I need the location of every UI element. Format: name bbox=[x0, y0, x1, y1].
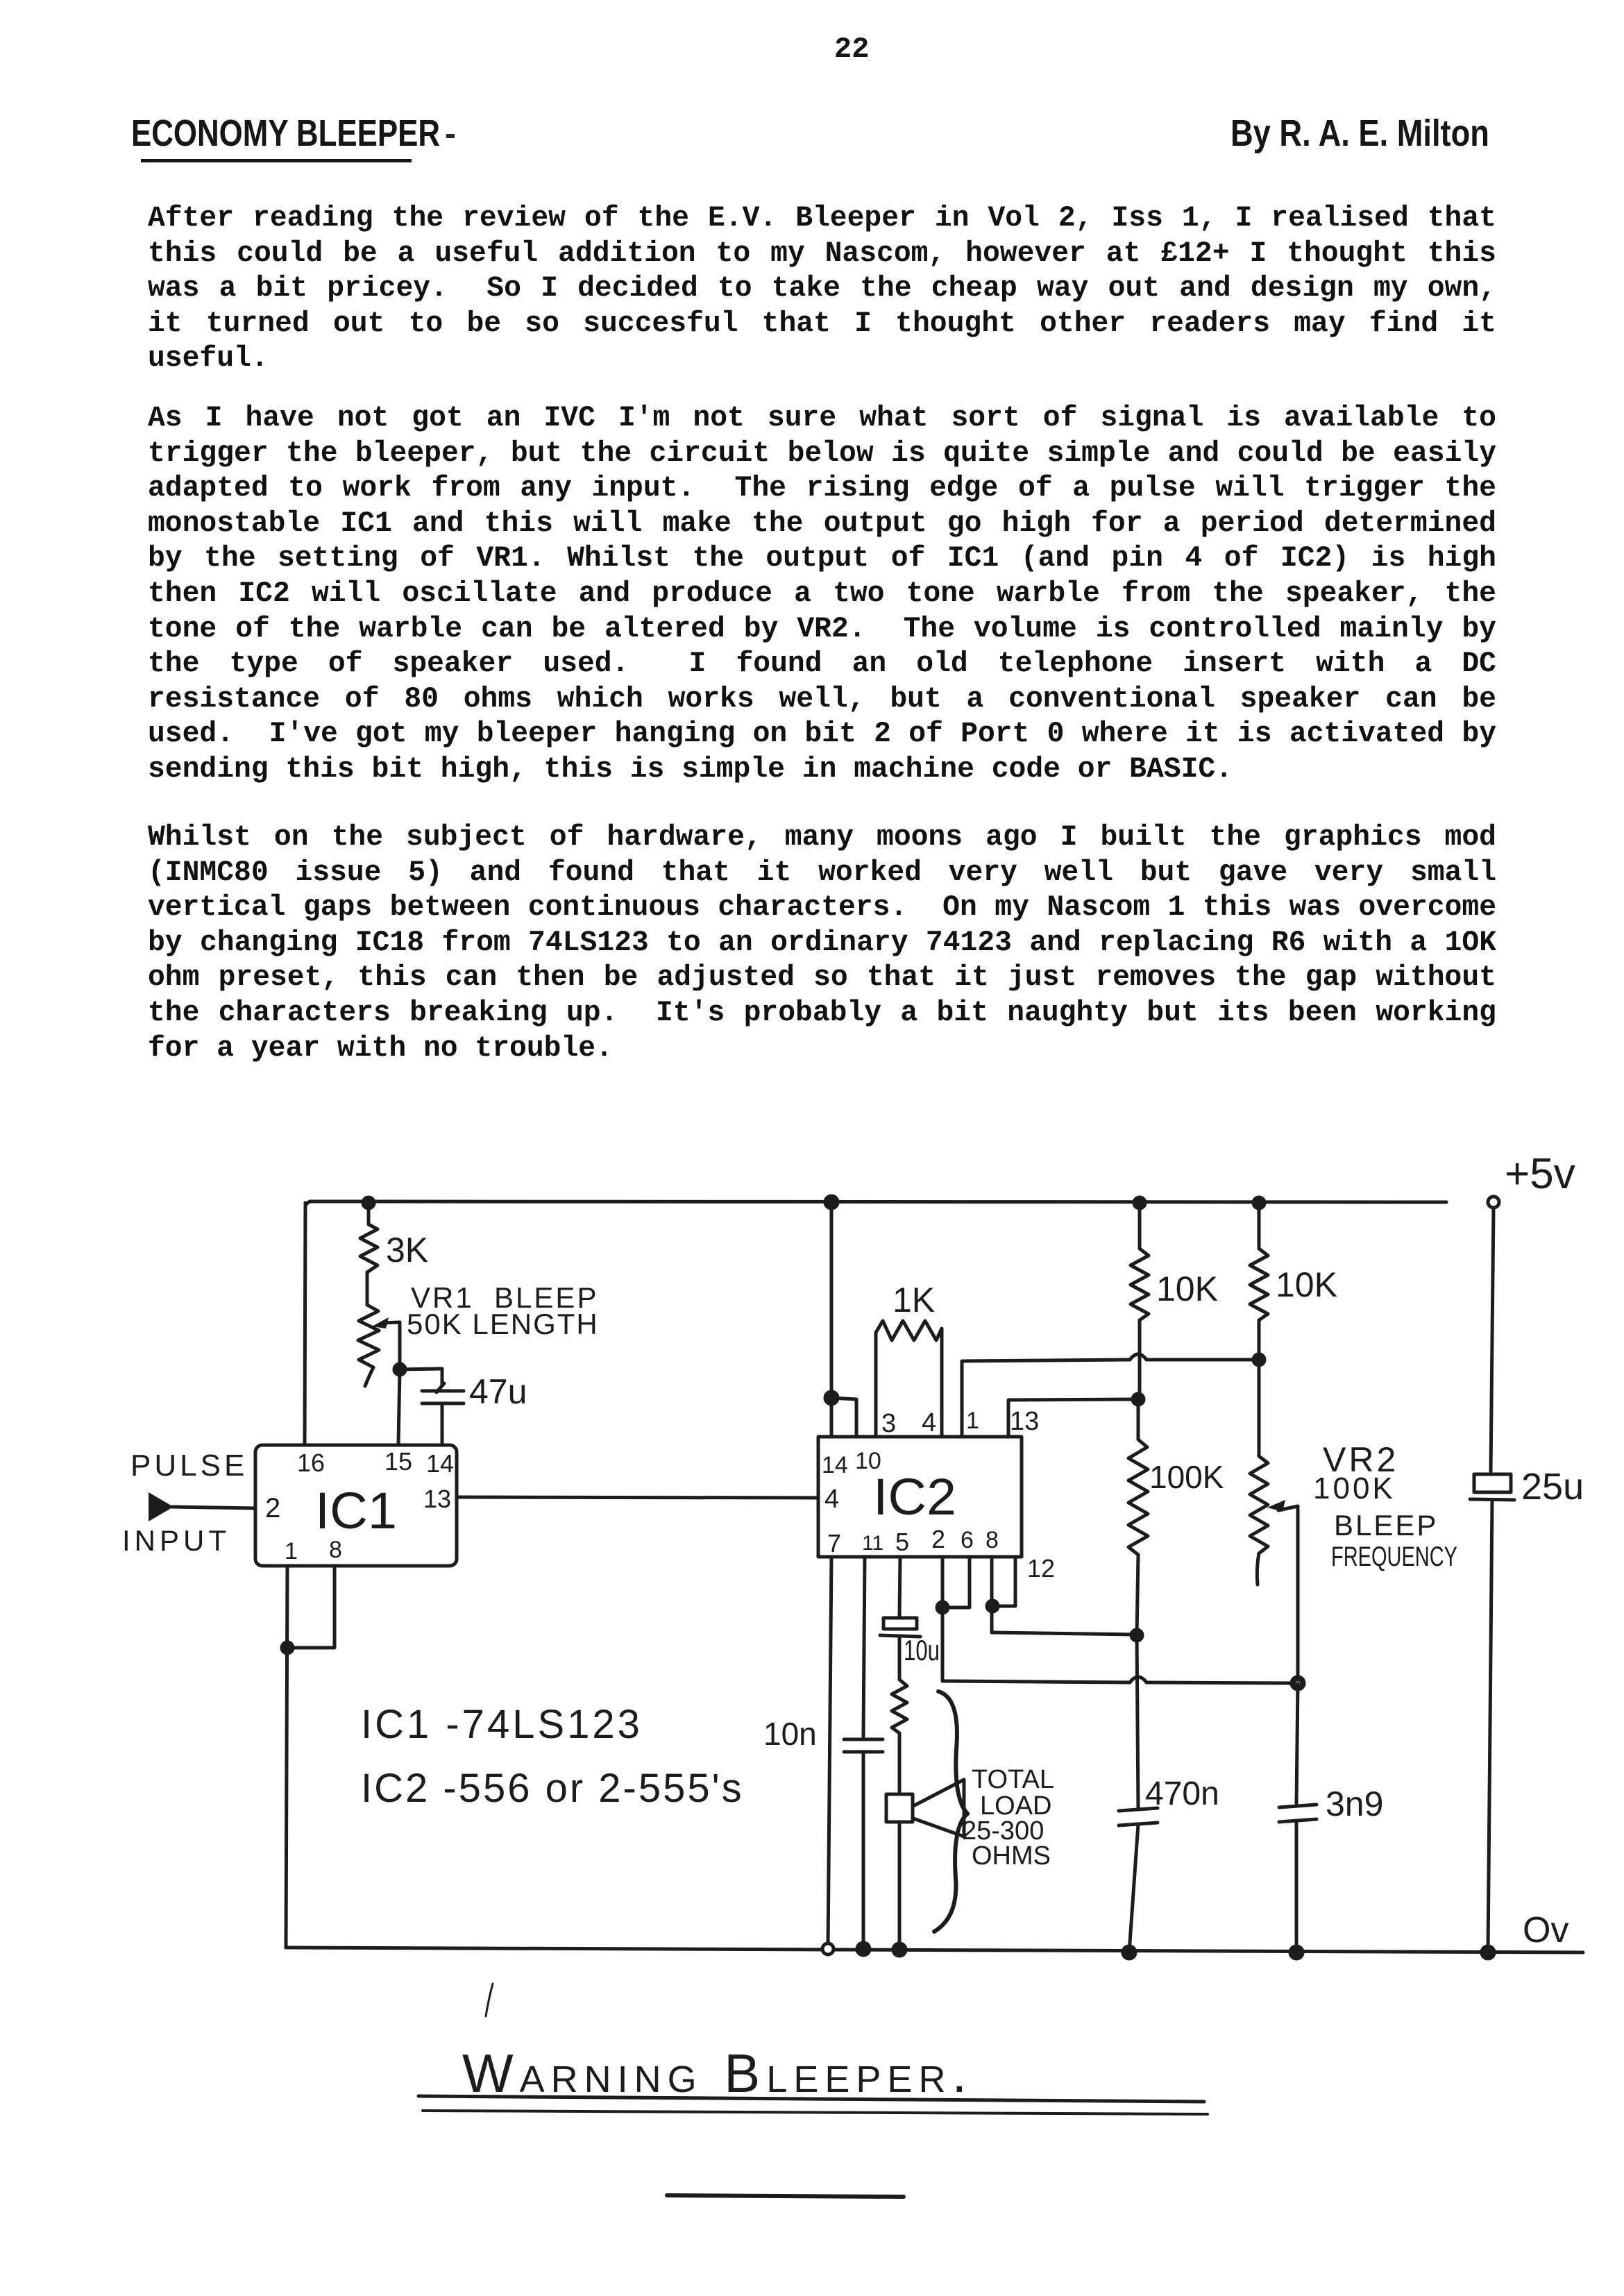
IC2 pin label 6 bbox=[961, 1527, 974, 1553]
label +5v bbox=[1505, 1150, 1575, 1198]
label TOTAL bbox=[972, 1765, 1054, 1794]
speaker LS1 bbox=[886, 1780, 964, 1837]
svg-text:1: 1 bbox=[285, 1538, 298, 1564]
label PULSE bbox=[130, 1449, 248, 1483]
resistor speaker load bbox=[892, 1680, 907, 1793]
IC1 pin label 13 bbox=[423, 1485, 451, 1513]
node R6 bottom / pins 8+12 wire bbox=[1131, 1630, 1142, 1641]
brace total load bbox=[934, 1691, 967, 1932]
svg-text:4: 4 bbox=[922, 1408, 936, 1437]
paragraph 1 bbox=[148, 201, 1496, 377]
node rail / R5 10K bbox=[1253, 1197, 1264, 1208]
IC1 pin label 14 bbox=[426, 1449, 454, 1478]
svg-text:10K: 10K bbox=[1156, 1269, 1218, 1308]
IC2 pin label 5 bbox=[895, 1528, 909, 1556]
svg-text:10n: 10n bbox=[763, 1716, 817, 1752]
resistor R4 10K bbox=[1131, 1203, 1218, 1399]
svg-text:10K: 10K bbox=[1276, 1265, 1337, 1304]
label VR2 bbox=[1323, 1440, 1398, 1479]
svg-text:15: 15 bbox=[384, 1447, 412, 1476]
page number bbox=[834, 33, 869, 66]
wire wiper node to C3n9 bbox=[1296, 1683, 1298, 1803]
label OHMS bbox=[972, 1841, 1051, 1871]
svg-text:2: 2 bbox=[931, 1525, 945, 1553]
capacitor C9 25u bbox=[1470, 1466, 1584, 1950]
svg-text:FREQUENCY: FREQUENCY bbox=[1331, 1542, 1457, 1572]
svg-text:8: 8 bbox=[329, 1537, 342, 1563]
svg-text:3: 3 bbox=[881, 1409, 896, 1438]
caption underline 1 bbox=[418, 2096, 1204, 2102]
node rail / 3K junction bbox=[363, 1197, 374, 1208]
svg-text:14: 14 bbox=[822, 1452, 848, 1478]
svg-text:3K: 3K bbox=[386, 1231, 428, 1269]
capacitor C3 10u bbox=[880, 1618, 940, 1680]
IC1 pin label 1 bbox=[285, 1538, 298, 1564]
svg-text:10u: 10u bbox=[904, 1634, 940, 1666]
wire IC2 pin2 down bbox=[941, 1557, 945, 1681]
wire R6 to C470n bbox=[1137, 1635, 1138, 1807]
IC1 74LS123 body bbox=[255, 1445, 457, 1566]
svg-text:PULSE: PULSE bbox=[130, 1449, 248, 1483]
node pin7 / 0V rail bbox=[822, 1943, 834, 1955]
IC2 556 body bbox=[818, 1437, 1022, 1557]
IC2 pin label 1 bbox=[966, 1408, 979, 1434]
svg-text:100K: 100K bbox=[1149, 1459, 1224, 1495]
svg-text:6: 6 bbox=[961, 1527, 974, 1553]
wire +5V supply rail bbox=[305, 1201, 1446, 1205]
svg-text:Ov: Ov bbox=[1523, 1910, 1568, 1950]
node pin1 wire / R5 10K bottom bbox=[1253, 1354, 1264, 1365]
svg-text:7: 7 bbox=[827, 1529, 841, 1558]
label INPUT bbox=[122, 1524, 230, 1557]
note IC1 74LS123 bbox=[361, 1702, 643, 1747]
IC2 pin label 4 (top) bbox=[922, 1408, 936, 1437]
svg-text:IC2: IC2 bbox=[873, 1468, 956, 1526]
node C10n / 0V rail bbox=[857, 1943, 870, 1955]
svg-text:IC1 -74LS123: IC1 -74LS123 bbox=[361, 1702, 643, 1747]
pulse input terminal arrow bbox=[149, 1492, 255, 1521]
wire IC1 pin16 to +5V rail bbox=[305, 1203, 305, 1445]
caption underline 2 bbox=[423, 2111, 1208, 2114]
wire wiper node to C47u bbox=[400, 1369, 442, 1369]
svg-text:25u: 25u bbox=[1521, 1466, 1584, 1508]
svg-text:BLEEP: BLEEP bbox=[1334, 1509, 1438, 1542]
svg-text:IC2 -556 or 2-555's: IC2 -556 or 2-555's bbox=[361, 1766, 744, 1811]
wire IC2 pin1 to VR2 top junction bbox=[962, 1354, 1259, 1437]
capacitor C1 47u bbox=[422, 1369, 527, 1445]
node rail / R4 10K bbox=[1134, 1197, 1145, 1208]
node +5V rail / IC2 supply bbox=[825, 1196, 838, 1208]
IC2 pin label 8 bbox=[986, 1527, 999, 1553]
wire pins2+6 to VR2 wiper node bbox=[942, 1677, 1292, 1683]
wire IC2 pin7 to 0V rail bbox=[828, 1557, 831, 1948]
wire IC1 pin13 to IC2 pin4 bbox=[457, 1497, 818, 1498]
wire IC2 pin13 to 10K/100K junction bbox=[1008, 1399, 1138, 1437]
IC2 pin label 14 bbox=[822, 1452, 848, 1478]
wire 0V rail bbox=[286, 1948, 1583, 1952]
svg-text:8: 8 bbox=[986, 1527, 999, 1553]
svg-text:11: 11 bbox=[862, 1532, 883, 1555]
IC2 pin label 10 bbox=[855, 1448, 881, 1474]
title bbox=[131, 112, 440, 155]
potentiometer VR1 50K bbox=[358, 1305, 379, 1386]
IC1 pin label 2 bbox=[265, 1493, 280, 1523]
title underline bbox=[141, 159, 412, 162]
node pin13 wire / R4 / R6 junction bbox=[1133, 1394, 1144, 1405]
wire rail to IC2 pin14 bbox=[830, 1202, 834, 1437]
VR1 wiper arrow bbox=[372, 1317, 400, 1368]
label BLEEP bbox=[1334, 1509, 1438, 1542]
wire wiper node to IC1 pin15 bbox=[398, 1369, 400, 1445]
label 100K (VR2) bbox=[1313, 1471, 1396, 1505]
label LOAD bbox=[980, 1791, 1051, 1821]
IC1 pin label 15 bbox=[384, 1447, 412, 1476]
label 50K LENGTH bbox=[407, 1308, 599, 1340]
svg-text:OHMS: OHMS bbox=[972, 1841, 1051, 1871]
svg-text:3n9: 3n9 bbox=[1326, 1784, 1383, 1823]
IC2 pin label 4 (left) bbox=[824, 1485, 839, 1514]
svg-text:16: 16 bbox=[297, 1449, 325, 1477]
VR2 wiper arrow bbox=[1267, 1500, 1298, 1680]
node C3n9 to 0V bbox=[1290, 1946, 1303, 1959]
label FREQUENCY bbox=[1331, 1542, 1457, 1572]
paragraph 2 bbox=[148, 401, 1496, 788]
svg-text:47u: 47u bbox=[469, 1372, 527, 1411]
node VR2 wiper / pins2+6 wire bbox=[1292, 1677, 1304, 1689]
svg-text:5: 5 bbox=[895, 1528, 909, 1556]
wire speaker to 0V rail bbox=[898, 1822, 902, 1950]
svg-text:IC1: IC1 bbox=[315, 1482, 397, 1539]
svg-text:50K LENGTH: 50K LENGTH bbox=[407, 1308, 599, 1340]
wire IC2 pin8 down bbox=[990, 1557, 994, 1632]
wire pin6 to node bbox=[942, 1557, 970, 1607]
svg-text:WARNING BLEEPER.: WARNING BLEEPER. bbox=[462, 2043, 973, 2104]
wire pin12 to node bbox=[992, 1557, 1015, 1606]
svg-text:10: 10 bbox=[855, 1448, 881, 1474]
node IC1 pins 1+8 bbox=[282, 1642, 293, 1653]
caption WARNING BLEEPER bbox=[462, 2043, 973, 2104]
svg-text:13: 13 bbox=[423, 1485, 451, 1513]
IC1 pin label 8 bbox=[329, 1537, 342, 1563]
node VR1 wiper / C47u / IC1 pin15 bbox=[394, 1364, 405, 1375]
wire IC2 pin5 to C10u bbox=[899, 1557, 900, 1617]
svg-text:INPUT: INPUT bbox=[122, 1524, 230, 1557]
IC2 pin label 7 bbox=[827, 1529, 841, 1558]
svg-text:1K: 1K bbox=[893, 1281, 935, 1319]
svg-text:4: 4 bbox=[824, 1485, 839, 1514]
svg-text:+5v: +5v bbox=[1505, 1150, 1575, 1198]
resistor R6 100K bbox=[1128, 1399, 1224, 1635]
wire node to IC2 pin10 bbox=[831, 1398, 856, 1437]
IC2 pin label 11 bbox=[862, 1532, 883, 1555]
stray pen mark bbox=[486, 1984, 493, 2016]
capacitor C6 3n9 bbox=[1279, 1784, 1383, 1952]
separator line bbox=[667, 2195, 904, 2197]
resistor R1 3K bbox=[360, 1203, 428, 1305]
svg-text:2: 2 bbox=[265, 1493, 280, 1523]
wire IC1 pin1 to 0V rail bbox=[286, 1566, 287, 1948]
wire IC2 pin11 to C10n bbox=[863, 1557, 865, 1737]
capacitor C4 10n bbox=[763, 1716, 883, 1949]
node IC2 pin14/pin10 tie bbox=[825, 1392, 838, 1404]
label 0v bbox=[1523, 1910, 1568, 1950]
svg-text:12: 12 bbox=[1027, 1554, 1055, 1582]
capacitor C5 470n bbox=[1119, 1775, 1219, 1952]
IC2 pin label 13 bbox=[1010, 1407, 1039, 1436]
resistor R5 10K bbox=[1250, 1203, 1337, 1360]
title trailing dash bbox=[446, 134, 455, 138]
node pins 8+12 tie bbox=[987, 1601, 998, 1612]
svg-text:14: 14 bbox=[426, 1449, 454, 1478]
svg-text:TOTAL: TOTAL bbox=[972, 1765, 1054, 1794]
IC1 pin label 16 bbox=[297, 1449, 325, 1477]
resistor R3 1K bbox=[876, 1281, 942, 1437]
IC2 pin label 3 bbox=[881, 1409, 896, 1438]
label VR1 BLEEP bbox=[411, 1281, 598, 1314]
wire IC1 pin8 to pin1 bbox=[287, 1566, 335, 1648]
paragraph 3 bbox=[148, 820, 1496, 1066]
wire pins8+12 to R6 bottom node bbox=[992, 1632, 1137, 1635]
note IC2 556 or 2-555s bbox=[361, 1766, 744, 1811]
IC2 pin label 2 bbox=[931, 1525, 945, 1553]
node C470n to 0V bbox=[1123, 1946, 1135, 1959]
svg-text:1: 1 bbox=[966, 1408, 979, 1434]
svg-text:470n: 470n bbox=[1145, 1775, 1219, 1812]
svg-text:13: 13 bbox=[1010, 1407, 1039, 1436]
node +5V terminal bbox=[1488, 1197, 1499, 1208]
node speaker / 0V rail bbox=[893, 1943, 906, 1956]
node pins 2+6 tie bbox=[937, 1602, 948, 1613]
label 25-300 bbox=[962, 1816, 1044, 1846]
potentiometer VR2 100K bbox=[1250, 1360, 1268, 1585]
wire +5V terminal to C25u bbox=[1491, 1208, 1494, 1471]
byline bbox=[1230, 112, 1489, 155]
IC2 pin label 12 bbox=[1027, 1554, 1055, 1582]
svg-text:100K: 100K bbox=[1313, 1471, 1396, 1505]
node 25u to 0V rail bbox=[1482, 1946, 1494, 1959]
